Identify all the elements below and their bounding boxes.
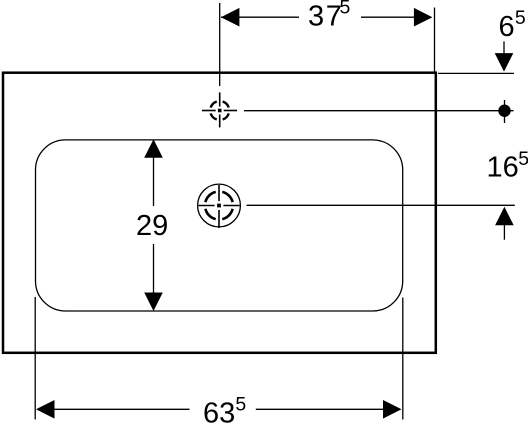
dimension 63.5: left extension line: [34, 297, 36, 420]
dimension 16.5: arrow stem: [503, 225, 505, 240]
dimension 63.5: dimension line left segment: [54, 408, 190, 410]
dimension 37.5: left arrowhead: [221, 8, 240, 27]
dimension 16.5: up arrowhead: [495, 207, 514, 226]
washbasin outer outline: [3, 73, 436, 353]
dimension 37.5: right arrowhead: [414, 8, 433, 27]
dimension 29: up arrowhead: [144, 139, 163, 158]
dimension 29: line lower segment: [153, 244, 155, 294]
dimension 29: line upper segment: [153, 157, 155, 206]
svg-text:5: 5: [235, 393, 246, 415]
svg-text:5: 5: [518, 148, 528, 170]
svg-text:29: 29: [136, 210, 168, 242]
dimension 63.5: left arrowhead: [36, 400, 55, 419]
dimension 63.5: dimension line right segment: [256, 408, 384, 410]
dimension 6.5: arrow stem: [503, 41, 505, 56]
svg-text:5: 5: [340, 0, 351, 18]
faucet level dot: [498, 105, 510, 117]
dimension 37.5: dimension line right segment: [361, 16, 431, 18]
dimension 37.5: extension line at faucet centre: [219, 3, 221, 86]
dimension 37.5: dimension line left segment: [221, 16, 299, 18]
faucet hole symbol: [202, 92, 237, 127]
basin bowl rounded rectangle: [36, 140, 403, 311]
svg-text:6: 6: [499, 11, 515, 43]
faucet level dot vertical tick: [504, 100, 506, 123]
svg-text:5: 5: [515, 7, 526, 29]
svg-text:16: 16: [487, 151, 519, 183]
dimension 29: down arrowhead: [144, 293, 163, 312]
dimension 63.5: right extension line: [402, 298, 404, 420]
dimension 63.5: right arrowhead: [383, 400, 402, 419]
drain outlet symbol: [198, 184, 241, 228]
dimension 6.5: top edge extension line: [438, 72, 514, 74]
faucet centre level line: [244, 110, 514, 112]
svg-text:37: 37: [308, 0, 343, 32]
drain centre level line: [247, 204, 515, 206]
dimension 37.5: extension line at right edge: [434, 8, 436, 74]
dimension 6.5: down arrowhead: [495, 53, 514, 72]
svg-text:63: 63: [203, 398, 235, 424]
